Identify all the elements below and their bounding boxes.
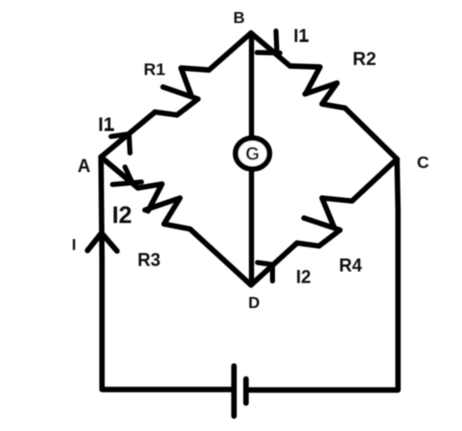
svg-text:R3: R3 xyxy=(137,250,160,270)
wire D-C with resistor R4 xyxy=(322,159,397,227)
svg-text:D: D xyxy=(248,295,260,312)
wire battery right + C down xyxy=(249,159,398,390)
battery long plate xyxy=(231,366,237,416)
svg-text:I2: I2 xyxy=(112,202,132,229)
arrow I2 on A-D xyxy=(125,167,132,181)
arrow I on left wire xyxy=(88,233,102,251)
galvanometer G circle xyxy=(236,138,270,169)
svg-text:A: A xyxy=(78,156,91,176)
arrow I2 on D-C xyxy=(258,263,273,265)
svg-text:I1: I1 xyxy=(293,26,308,46)
wire B-D galvanometer branch xyxy=(249,33,254,285)
svg-text:C: C xyxy=(417,153,429,172)
svg-text:G: G xyxy=(245,144,259,164)
svg-text:R1: R1 xyxy=(144,60,166,79)
svg-text:R2: R2 xyxy=(353,48,377,69)
arrow I1 on B-C xyxy=(276,31,277,54)
wire A-D with resistor R3 xyxy=(101,157,162,211)
battery short plate xyxy=(243,379,249,403)
svg-text:I2: I2 xyxy=(296,267,311,287)
svg-text:I: I xyxy=(72,237,76,254)
svg-text:I1: I1 xyxy=(98,115,114,136)
svg-text:B: B xyxy=(233,10,245,27)
svg-text:R4: R4 xyxy=(339,256,362,276)
wire A-B with resistor R1 xyxy=(181,33,251,95)
arrow I1 on A-B xyxy=(111,134,129,137)
wire B-C with resistor R2 xyxy=(251,33,320,93)
wire A down + bottom left to battery xyxy=(101,157,231,390)
